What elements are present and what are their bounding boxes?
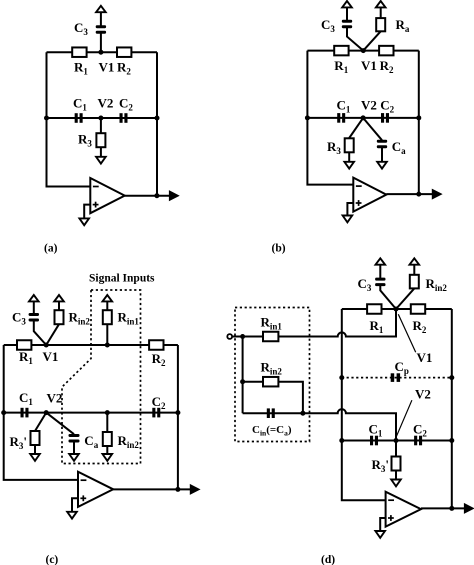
op-amp U1 (fig c) <box>78 472 113 507</box>
wire V2 line (fig c) <box>4 412 178 414</box>
wire Rin1 to V1 line (fig c) <box>106 324 108 345</box>
op-amp U1 (fig d) <box>386 492 421 527</box>
wire Ra to V1 (fig b) <box>363 31 380 50</box>
resistor R1 (fig a) <box>72 47 86 57</box>
capacitor C2 (fig b) <box>381 113 384 123</box>
node V1 (fig a) <box>98 50 103 55</box>
svg-text:R1: R1 <box>74 60 88 77</box>
power arrow above C3 (fig b) <box>342 1 352 7</box>
svg-text:V1: V1 <box>417 350 433 365</box>
ground below Ca (fig b) <box>377 162 387 169</box>
wire arrow to C3 (fig b) <box>346 7 348 20</box>
junction left rail V2 line (fig c) <box>1 410 6 415</box>
wire V2 line (fig a) <box>47 117 158 119</box>
op-amp U1 (fig a) <box>90 178 124 213</box>
resistor R2 (fig a) <box>117 47 131 57</box>
wire op-amp output (fig a) <box>125 195 171 197</box>
ground below Ca (fig c) <box>69 454 79 461</box>
wire left rail (fig d) <box>342 309 386 500</box>
wire R2 to right rail (fig b) <box>394 50 419 52</box>
node V1 (fig b) <box>361 48 366 53</box>
svg-text:Cp: Cp <box>395 359 409 376</box>
svg-text:(d): (d) <box>321 554 335 565</box>
wire C1 C2 line (fig d) <box>342 440 452 442</box>
junction Rin1 on V1 line (fig c) <box>105 343 110 348</box>
dashed signal-inputs boundary (fig c) <box>62 290 141 464</box>
ground at op-amp + input (fig c) <box>67 512 77 519</box>
svg-text:(c): (c) <box>46 554 59 565</box>
junction output node (fig c) <box>175 487 180 492</box>
resistor Rin1 (fig c) <box>103 310 112 324</box>
svg-text:C3: C3 <box>321 17 335 34</box>
resistor R2 (fig b) <box>379 46 393 56</box>
resistor R1 (fig c) <box>17 340 31 350</box>
node V2 junction (fig d) <box>394 438 399 443</box>
wire non-inverting input to ground (fig d) <box>380 518 385 531</box>
junction C1 line left (fig d) <box>339 438 344 443</box>
svg-text:Rin2: Rin2 <box>118 433 140 450</box>
svg-text:C3: C3 <box>358 276 372 293</box>
resistor R1 (fig d) <box>367 304 381 314</box>
power arrow above Ra (fig b) <box>376 1 386 7</box>
svg-text:R3': R3' <box>372 457 390 474</box>
svg-text:C3: C3 <box>12 310 26 327</box>
svg-text:R2: R2 <box>117 60 131 77</box>
subfigure (b): filter with Ra and Ca compensation <box>272 1 442 255</box>
capacitor C3 (fig d) <box>375 278 385 281</box>
wire V1 line left (fig d) <box>342 308 368 310</box>
wire R3 to ground (fig b) <box>348 152 350 162</box>
svg-text:C2: C2 <box>380 98 394 115</box>
svg-text:V2: V2 <box>98 96 114 111</box>
wire Rin2 to Cin line (fig d) <box>278 382 303 414</box>
junction Cin right (fig d) <box>300 411 305 416</box>
capacitor Cp (fig d) <box>391 373 395 382</box>
wire Rin2 lower to ground (fig c) <box>106 446 108 454</box>
svg-text:Signal Inputs: Signal Inputs <box>89 273 155 285</box>
wire C3 to V1 (fig b) <box>347 28 363 51</box>
wire right rail (fig a) <box>156 52 158 196</box>
wire arrow to Rin2 input (fig d) <box>413 265 415 275</box>
wire arrow to Rin2 (fig c) <box>58 301 60 310</box>
capacitor C3 (fig c) <box>29 313 39 316</box>
svg-text:C2: C2 <box>152 394 166 411</box>
wire left rail (fig b) <box>307 51 353 185</box>
svg-text:V1: V1 <box>43 349 59 364</box>
svg-text:Rin2: Rin2 <box>261 360 283 377</box>
node V1 (fig c) <box>44 343 49 348</box>
wire arrow to C3 (fig a) <box>100 12 102 25</box>
signal arrow above Rin2 input (fig d) <box>410 258 420 264</box>
wire Rin2 to V1 (fig c) <box>46 324 59 345</box>
resistor Ra (fig b) <box>376 18 385 31</box>
svg-text:R2: R2 <box>413 318 427 335</box>
svg-text:V2: V2 <box>47 391 63 406</box>
resistor Rin2 lower (fig c) <box>103 432 112 446</box>
svg-text:V2: V2 <box>361 98 377 113</box>
svg-text:C1: C1 <box>369 422 383 439</box>
junction output node (fig d) <box>449 506 454 511</box>
wire left rail (fig a) <box>47 52 91 186</box>
wire arrow to C3 (fig d) <box>379 265 381 278</box>
svg-text:R1: R1 <box>370 318 384 335</box>
node V1 (fig d) <box>394 307 399 312</box>
junction right V2 line (fig b) <box>416 115 421 120</box>
svg-text:C3: C3 <box>74 20 88 37</box>
wire V2 to R3' (fig c) <box>35 413 46 431</box>
power arrow above C3 (fig d) <box>376 258 386 264</box>
capacitor Ca (fig c) <box>69 434 80 437</box>
node V2 (fig a) <box>98 116 103 121</box>
wire arrow to C3 (fig c) <box>33 301 35 313</box>
ground below R3 (fig b) <box>344 162 354 169</box>
wire C3 to V1 (fig c) <box>34 321 46 345</box>
wire V2 to Ca (fig b) <box>363 118 382 140</box>
ground at op-amp + input (fig a) <box>79 218 89 225</box>
wire R1 to R2 (fig d) <box>381 308 411 310</box>
svg-text:Rin2: Rin2 <box>426 276 448 293</box>
ground below R3' (fig d) <box>391 480 401 487</box>
pointer to V2 label (fig d) <box>397 400 412 436</box>
output arrow (fig a) <box>169 191 178 200</box>
dashed Cp line (fig d) <box>342 377 452 379</box>
ground below Rin2 lower (fig c) <box>103 454 113 461</box>
wire R1 to V1 (fig a) <box>87 51 117 53</box>
wire op-amp output (fig c) <box>113 488 191 490</box>
junction output node (fig b) <box>416 192 421 197</box>
capacitor C1 (fig b) <box>337 113 340 123</box>
svg-text:Rin1: Rin1 <box>261 315 283 332</box>
resistor Rin1 (fig d) <box>263 332 278 342</box>
wire V2 to R3 (fig b) <box>349 118 363 138</box>
power arrow above Rin2 (fig c) <box>54 295 64 301</box>
svg-text:Ca: Ca <box>84 433 98 450</box>
wire C3 to node V1 (fig a) <box>100 33 102 52</box>
svg-text:V1: V1 <box>361 58 377 73</box>
wire non-inverting input to ground (fig b) <box>347 203 353 216</box>
subfigure (a): band-pass filter core <box>44 6 179 255</box>
capacitor C3 (fig b) <box>342 20 352 23</box>
capacitor C2 (fig d) <box>414 436 417 446</box>
wire R3' to ground (fig d) <box>395 470 397 479</box>
pointer to V1 label (fig d) <box>398 314 415 352</box>
resistor R2 (fig c) <box>149 340 163 350</box>
ground at op-amp + input (fig d) <box>375 531 385 538</box>
signal arrow above Rin1 (fig c) <box>103 295 113 301</box>
wire C3 to V1 (fig d) <box>380 286 396 309</box>
wire R2 to right rail (fig c) <box>164 344 178 346</box>
svg-text:R2: R2 <box>380 58 394 75</box>
svg-text:C2: C2 <box>413 422 427 439</box>
resistor Rin2 input (fig d) <box>410 275 419 289</box>
power arrow above C3 (fig c) <box>29 295 39 301</box>
wire R3' to ground (fig c) <box>34 445 36 454</box>
power arrow (top, fig a) <box>96 6 106 12</box>
wire Ca to ground (fig c) <box>73 442 75 454</box>
output arrow (fig d) <box>464 504 473 513</box>
wire V2 line (fig b) <box>307 117 418 119</box>
wire left rail (fig c) <box>4 345 78 480</box>
capacitor Ca (fig b) <box>377 140 387 143</box>
wire V2 to R3 (fig a) <box>100 118 102 133</box>
node V2 (fig c) <box>44 410 49 415</box>
dashed input-network boundary (fig d) <box>235 308 310 442</box>
wire input branch down (fig d) <box>242 337 244 414</box>
svg-text:Cin(=Ca): Cin(=Ca) <box>252 424 292 438</box>
svg-text:Ra: Ra <box>396 17 410 34</box>
resistor R2 (fig d) <box>411 304 425 314</box>
svg-text:Rin1: Rin1 <box>118 310 140 327</box>
svg-text:R3: R3 <box>327 139 341 156</box>
capacitor C2 (fig c) <box>152 408 155 418</box>
node V2 (fig b) <box>361 115 366 120</box>
wire op-amp output (fig d) <box>421 507 465 509</box>
svg-text:Ca: Ca <box>392 139 406 156</box>
wire right rail (fig c) <box>177 345 179 489</box>
capacitor Cin (fig d) <box>267 408 270 418</box>
wire V2 to Ca (fig c) <box>46 413 74 435</box>
svg-text:R3: R3 <box>78 132 92 149</box>
wire between R1 and R2 (fig b) <box>349 50 379 52</box>
wire R1 to R2 (fig c) <box>31 344 149 346</box>
svg-text:(a): (a) <box>44 243 58 255</box>
svg-text:R2: R2 <box>152 351 166 368</box>
resistor Rin2 (fig d) <box>263 377 278 387</box>
junction Cp left (fig d) <box>339 375 344 380</box>
wire V2 line to Rin2 lower (fig c) <box>106 413 108 432</box>
subfigure (c): filter with signal input resistors <box>1 273 199 565</box>
junction output node (fig a) <box>154 193 159 198</box>
wire V1 line left segment (fig a) <box>47 51 73 53</box>
capacitor C1 (fig c) <box>21 408 24 418</box>
svg-text:C1: C1 <box>337 98 351 115</box>
wire Rin2 row (fig d) <box>243 381 263 383</box>
op-amp U1 (fig b) <box>353 178 386 212</box>
wire Rin2 input to V1 (fig d) <box>396 288 414 309</box>
ground at op-amp + input (fig b) <box>343 216 353 223</box>
subfigure (d): filter with input network and Cp <box>227 258 473 565</box>
junction left V2 line (fig b) <box>305 115 310 120</box>
junction Rin2 left (fig d) <box>240 379 245 384</box>
wire arrow to Ra (fig b) <box>380 7 382 18</box>
junction left V2 line (fig a) <box>44 116 49 121</box>
wire Cin line (fig d) <box>243 412 303 414</box>
svg-text:C2: C2 <box>119 96 133 113</box>
wire Cin to V2 with crossover hop (fig d) <box>303 409 396 440</box>
resistor Rin2 upper (fig c) <box>55 310 64 324</box>
wire right rail (fig d) <box>451 309 453 508</box>
resistor R3 (fig b) <box>345 138 354 152</box>
svg-text:R1: R1 <box>334 58 348 75</box>
resistor R1 (fig b) <box>334 46 348 56</box>
junction Rin2 lower on V2 line (fig c) <box>105 410 110 415</box>
wire V2 to R3' (fig d) <box>395 441 397 457</box>
junction Cp right (fig d) <box>449 375 454 380</box>
svg-text:(b): (b) <box>272 243 286 255</box>
wire arrow to Rin1 (fig c) <box>106 301 108 310</box>
capacitor C1 (fig d) <box>370 436 373 446</box>
junction right V2 line (fig a) <box>155 116 160 121</box>
wire op-amp output (fig b) <box>386 193 433 195</box>
junction C2 line right (fig d) <box>449 438 454 443</box>
svg-text:R3': R3' <box>10 434 28 451</box>
junction input node (fig d) <box>240 334 245 339</box>
junction right rail V2 line (fig c) <box>175 410 180 415</box>
wire terminal to junction (fig d) <box>232 336 263 338</box>
wire non-inverting input to ground (fig c) <box>72 498 78 512</box>
wire Rin1 to V1 with crossover hop (fig d) <box>278 309 396 337</box>
output arrow (fig b) <box>432 189 441 198</box>
capacitor C3 (fig a) <box>96 25 106 28</box>
svg-text:V2: V2 <box>415 387 431 402</box>
wire R2 to right rail (fig d) <box>425 308 452 310</box>
capacitor C2 (fig a) <box>120 113 123 123</box>
ground below R3 (fig a) <box>96 157 106 164</box>
resistor R3' (fig d) <box>392 457 401 471</box>
svg-text:Rin2: Rin2 <box>69 310 91 327</box>
svg-text:V1: V1 <box>99 60 115 75</box>
wire right rail (fig b) <box>418 51 420 195</box>
wire Ca to ground (fig b) <box>381 148 383 162</box>
wire V1 line left (fig b) <box>307 50 334 52</box>
capacitor C1 (fig a) <box>75 113 78 123</box>
wire R2 to right rail (fig a) <box>131 51 157 53</box>
resistor R3 (fig a) <box>96 133 105 147</box>
svg-text:C1: C1 <box>19 390 33 407</box>
wire R3 to ground (fig a) <box>100 147 102 157</box>
wire non-inverting input to ground (fig a) <box>84 205 90 219</box>
wire V1 line left (fig c) <box>4 344 17 346</box>
ground below R3' (fig c) <box>30 454 40 461</box>
svg-text:C1: C1 <box>73 96 87 113</box>
output arrow (fig c) <box>190 485 199 494</box>
resistor R3' (fig c) <box>31 431 40 445</box>
input terminal circle (fig d) <box>227 334 232 339</box>
svg-text:R1: R1 <box>19 349 33 366</box>
